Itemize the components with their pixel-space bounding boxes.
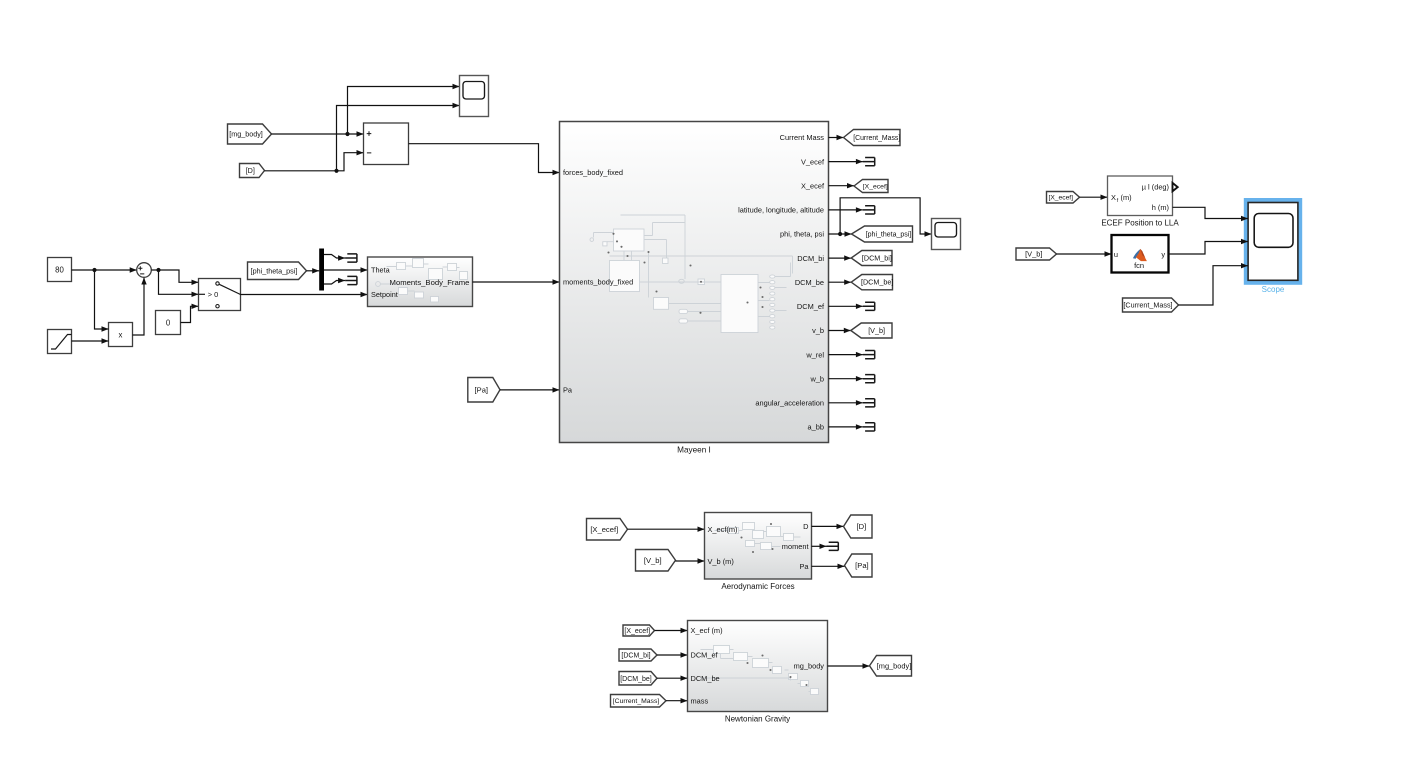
goto tag D — [844, 515, 873, 538]
svg-text:DCM_ef: DCM_ef — [797, 302, 825, 311]
wire phi theta psi out — [829, 233, 852, 235]
terminator a_bb — [863, 423, 875, 431]
wire phi theta psi to scope2 — [840, 198, 931, 234]
svg-text:Newtonian Gravity: Newtonian Gravity — [725, 714, 790, 723]
svg-text:µ l (deg): µ l (deg) — [1142, 183, 1169, 192]
wire DCM_be to newton — [657, 677, 688, 679]
svg-text:[DCM_be]: [DCM_be] — [620, 676, 652, 683]
svg-text:> 0: > 0 — [208, 290, 218, 299]
svg-text:[X_ecef]: [X_ecef] — [1048, 195, 1073, 202]
wire Current Mass out — [829, 137, 844, 139]
svg-text:0: 0 — [166, 319, 171, 328]
from tag X_ecef newton — [623, 625, 655, 636]
wire mg_body out — [828, 665, 870, 667]
wire product to sum bottom — [133, 278, 145, 336]
svg-text:Setpoint: Setpoint — [371, 290, 398, 299]
terminator V_ecef — [863, 158, 875, 166]
svg-text:Pa: Pa — [799, 562, 809, 571]
goto tag X_ecef — [854, 180, 888, 193]
wire branch down to product input 1 — [95, 270, 109, 329]
svg-text:[X_ecef]: [X_ecef] — [624, 628, 650, 635]
from tag Current_Mass newton — [611, 695, 667, 708]
from tag V_b right — [1016, 248, 1057, 260]
svg-text:[phi_theta_psi]: [phi_theta_psi] — [251, 266, 298, 275]
from tag DCM_bi newton — [619, 649, 657, 661]
wire D branch to scope port2 — [337, 106, 460, 171]
subsystem Mayeen I — [560, 122, 829, 443]
wire demux out2 to Theta — [324, 269, 368, 271]
wire Moments_Body_Frame to Mayeen moments input — [473, 281, 560, 283]
wire DCM_bi to newton — [657, 654, 688, 656]
svg-text:X: X — [1111, 193, 1116, 202]
svg-text:X_ecef: X_ecef — [801, 181, 825, 190]
wire latitude out — [829, 209, 863, 211]
svg-text:[X_ecef]: [X_ecef] — [863, 183, 888, 190]
wire switch to Setpoint — [241, 294, 368, 296]
svg-text:DCM_ef: DCM_ef — [691, 651, 719, 660]
wire ECEF h to Scope port1 — [1173, 207, 1249, 218]
svg-text:Scope: Scope — [1262, 285, 1285, 294]
svg-text:[mg_body]: [mg_body] — [229, 130, 263, 139]
wire angular_acceleration out — [829, 402, 863, 404]
svg-text:u: u — [1114, 250, 1118, 259]
node after sum — [156, 268, 160, 272]
svg-text:x: x — [119, 331, 123, 340]
terminator demux 1 — [345, 254, 357, 262]
svg-text:V_ecef: V_ecef — [801, 157, 825, 166]
wire mg_body to subtract — [272, 133, 364, 135]
wire V_b to aero — [676, 560, 705, 562]
wire saturation to product input 2 — [72, 340, 109, 342]
svg-text:Theta: Theta — [371, 265, 391, 274]
subsystem Moments_Body_Frame — [368, 257, 473, 307]
svg-text:mass: mass — [691, 696, 709, 705]
switch block — [199, 279, 241, 311]
product block x — [109, 323, 133, 347]
wire 0 to switch input 3 — [181, 306, 199, 322]
svg-text:Mayeen I: Mayeen I — [677, 445, 711, 454]
wire DCM_bi out — [829, 257, 852, 259]
from tag D top — [240, 164, 265, 178]
svg-text:y: y — [1161, 250, 1165, 259]
svg-text:[DCM_bi]: [DCM_bi] — [621, 653, 650, 660]
scope block selected — [1244, 199, 1301, 285]
demux block — [319, 249, 324, 291]
svg-text:(m): (m) — [1121, 193, 1132, 202]
wire V_ecef out — [829, 161, 863, 163]
svg-text:Current Mass: Current Mass — [780, 133, 825, 142]
saturation block — [48, 330, 72, 354]
svg-text:[D]: [D] — [246, 166, 255, 175]
svg-text:V_b (m): V_b (m) — [708, 557, 734, 566]
goto tag V_b — [851, 323, 892, 338]
goto tag Pa — [845, 554, 873, 577]
sum circle block — [137, 263, 152, 278]
wire X_ecef to newton — [655, 630, 688, 632]
sum junction node — [92, 268, 96, 272]
svg-text:DCM_bi: DCM_bi — [797, 254, 824, 263]
svg-text:[D]: [D] — [857, 522, 867, 531]
wire Current_Mass to newton — [666, 700, 688, 702]
svg-text:[phi_theta_psi]: [phi_theta_psi] — [866, 232, 912, 239]
wire subtract to Mayeen forces input — [409, 144, 560, 173]
wire 80 to sum — [72, 269, 137, 271]
subsystem Aerodynamic Forces — [705, 513, 812, 580]
wire fcn to Scope port2 — [1169, 242, 1249, 255]
wire D to subtract — [265, 153, 364, 171]
node mg_body branch — [345, 132, 349, 136]
wire sum to switch input 1 — [152, 270, 199, 282]
constant block 80 — [48, 258, 72, 282]
subsystem Newtonian Gravity — [688, 621, 828, 712]
svg-text:[DCM_bi]: [DCM_bi] — [862, 254, 892, 263]
svg-text:[Current_Mass]: [Current_Mass] — [613, 698, 660, 705]
node phi theta psi — [838, 232, 842, 236]
svg-text:mg_body: mg_body — [794, 662, 825, 671]
from tag Current_Mass right — [1123, 298, 1179, 312]
wire from tag to demux — [307, 270, 320, 272]
from tag Pa — [468, 378, 500, 403]
svg-text:ECEF Position to LLA: ECEF Position to LLA — [1101, 218, 1179, 227]
scope block middle — [932, 219, 961, 250]
svg-text:D: D — [803, 522, 808, 531]
wire sum to switch input 2 — [159, 270, 199, 294]
terminator w_rel — [863, 351, 875, 359]
svg-text:[V_b]: [V_b] — [1025, 250, 1042, 259]
svg-text:[DCM_be]: [DCM_be] — [861, 278, 893, 287]
wire Pa out — [812, 565, 845, 567]
goto tag DCM_bi — [851, 251, 892, 266]
svg-text:moments_body_fixed: moments_body_fixed — [563, 278, 633, 287]
wire Pa to Mayeen — [500, 389, 560, 391]
svg-text:80: 80 — [55, 266, 64, 275]
svg-text:Pa: Pa — [563, 386, 573, 395]
svg-text:moment: moment — [782, 542, 809, 551]
from tag phi_theta_psi — [248, 262, 307, 280]
wire DCM_be out — [829, 281, 852, 283]
svg-text:X_ecf (m): X_ecf (m) — [691, 626, 723, 635]
wire X_ecef out — [829, 185, 855, 187]
wire w_b out — [829, 378, 863, 380]
unconnected output port ECEF — [1173, 183, 1178, 191]
wire X_ecef to ECEF block — [1080, 196, 1108, 198]
svg-text:angular_acceleration: angular_acceleration — [755, 399, 824, 408]
wire demux out3 to terminator — [324, 281, 345, 285]
terminator angular_acceleration — [863, 399, 875, 407]
svg-text:[Pa]: [Pa] — [855, 561, 869, 570]
goto tag DCM_be — [851, 275, 892, 290]
from tag mg_body — [228, 124, 272, 144]
wire v_b out — [829, 330, 851, 332]
svg-text:X_ecf(m): X_ecf(m) — [708, 525, 738, 534]
goto tag phi_theta_psi — [852, 226, 913, 242]
terminator w_b — [863, 375, 875, 383]
svg-text:v_b: v_b — [812, 326, 824, 335]
from tag X_ecef right — [1047, 192, 1080, 204]
terminator latitude — [863, 206, 875, 214]
wire D out — [812, 525, 844, 527]
terminator demux 2 — [345, 276, 357, 284]
svg-text:[Pa]: [Pa] — [475, 385, 489, 394]
svg-text:[V_b]: [V_b] — [644, 556, 662, 565]
wire w_rel out — [829, 354, 863, 356]
from tag DCM_be newton — [619, 672, 657, 686]
scope block top — [460, 76, 489, 117]
terminator DCM_ef — [863, 302, 875, 310]
svg-text:Aerodynamic Forces: Aerodynamic Forces — [721, 582, 794, 591]
from tag X_ecef aero — [587, 519, 628, 541]
svg-text:[X_ecef]: [X_ecef] — [590, 525, 618, 534]
svg-text:DCM_be: DCM_be — [795, 278, 824, 287]
MATLAB function block fcn — [1112, 235, 1169, 273]
svg-text:DCM_be: DCM_be — [691, 674, 720, 683]
svg-text:latitude, longitude, altitude: latitude, longitude, altitude — [738, 206, 824, 215]
terminator moment — [827, 542, 839, 550]
subtract block — [364, 123, 409, 165]
wire V_b to fcn — [1057, 253, 1112, 255]
wire moment out — [812, 545, 827, 547]
svg-text:[Current_Mass]: [Current_Mass] — [1123, 301, 1172, 310]
svg-text:h (m): h (m) — [1152, 203, 1169, 212]
svg-text:fcn: fcn — [1134, 261, 1144, 270]
constant block 0 — [156, 311, 181, 335]
svg-text:[mg_body]: [mg_body] — [877, 661, 912, 670]
block ECEF Position to LLA — [1108, 176, 1173, 216]
goto tag Current_Mass — [844, 130, 901, 146]
wire X_ecef to aero — [628, 528, 705, 530]
wire DCM_ef out — [829, 305, 863, 307]
wire mg_body branch to scope port1 — [348, 87, 460, 135]
node D branch — [334, 169, 338, 173]
wire a_bb out — [829, 426, 863, 428]
svg-text:forces_body_fixed: forces_body_fixed — [563, 168, 623, 177]
svg-text:Moments_Body_Frame: Moments_Body_Frame — [390, 278, 470, 287]
svg-text:phi, theta, psi: phi, theta, psi — [780, 230, 824, 239]
svg-text:a_bb: a_bb — [808, 423, 824, 432]
svg-text:[Current_Mass]: [Current_Mass] — [853, 135, 900, 142]
goto tag mg_body — [870, 656, 912, 677]
wire demux out1 to terminator — [324, 255, 345, 259]
from tag V_b aero — [636, 550, 676, 572]
wire Current_Mass to Scope port3 — [1179, 266, 1249, 305]
svg-text:w_rel: w_rel — [805, 350, 824, 359]
svg-text:w_b: w_b — [809, 374, 824, 383]
svg-text:[V_b]: [V_b] — [868, 326, 885, 335]
